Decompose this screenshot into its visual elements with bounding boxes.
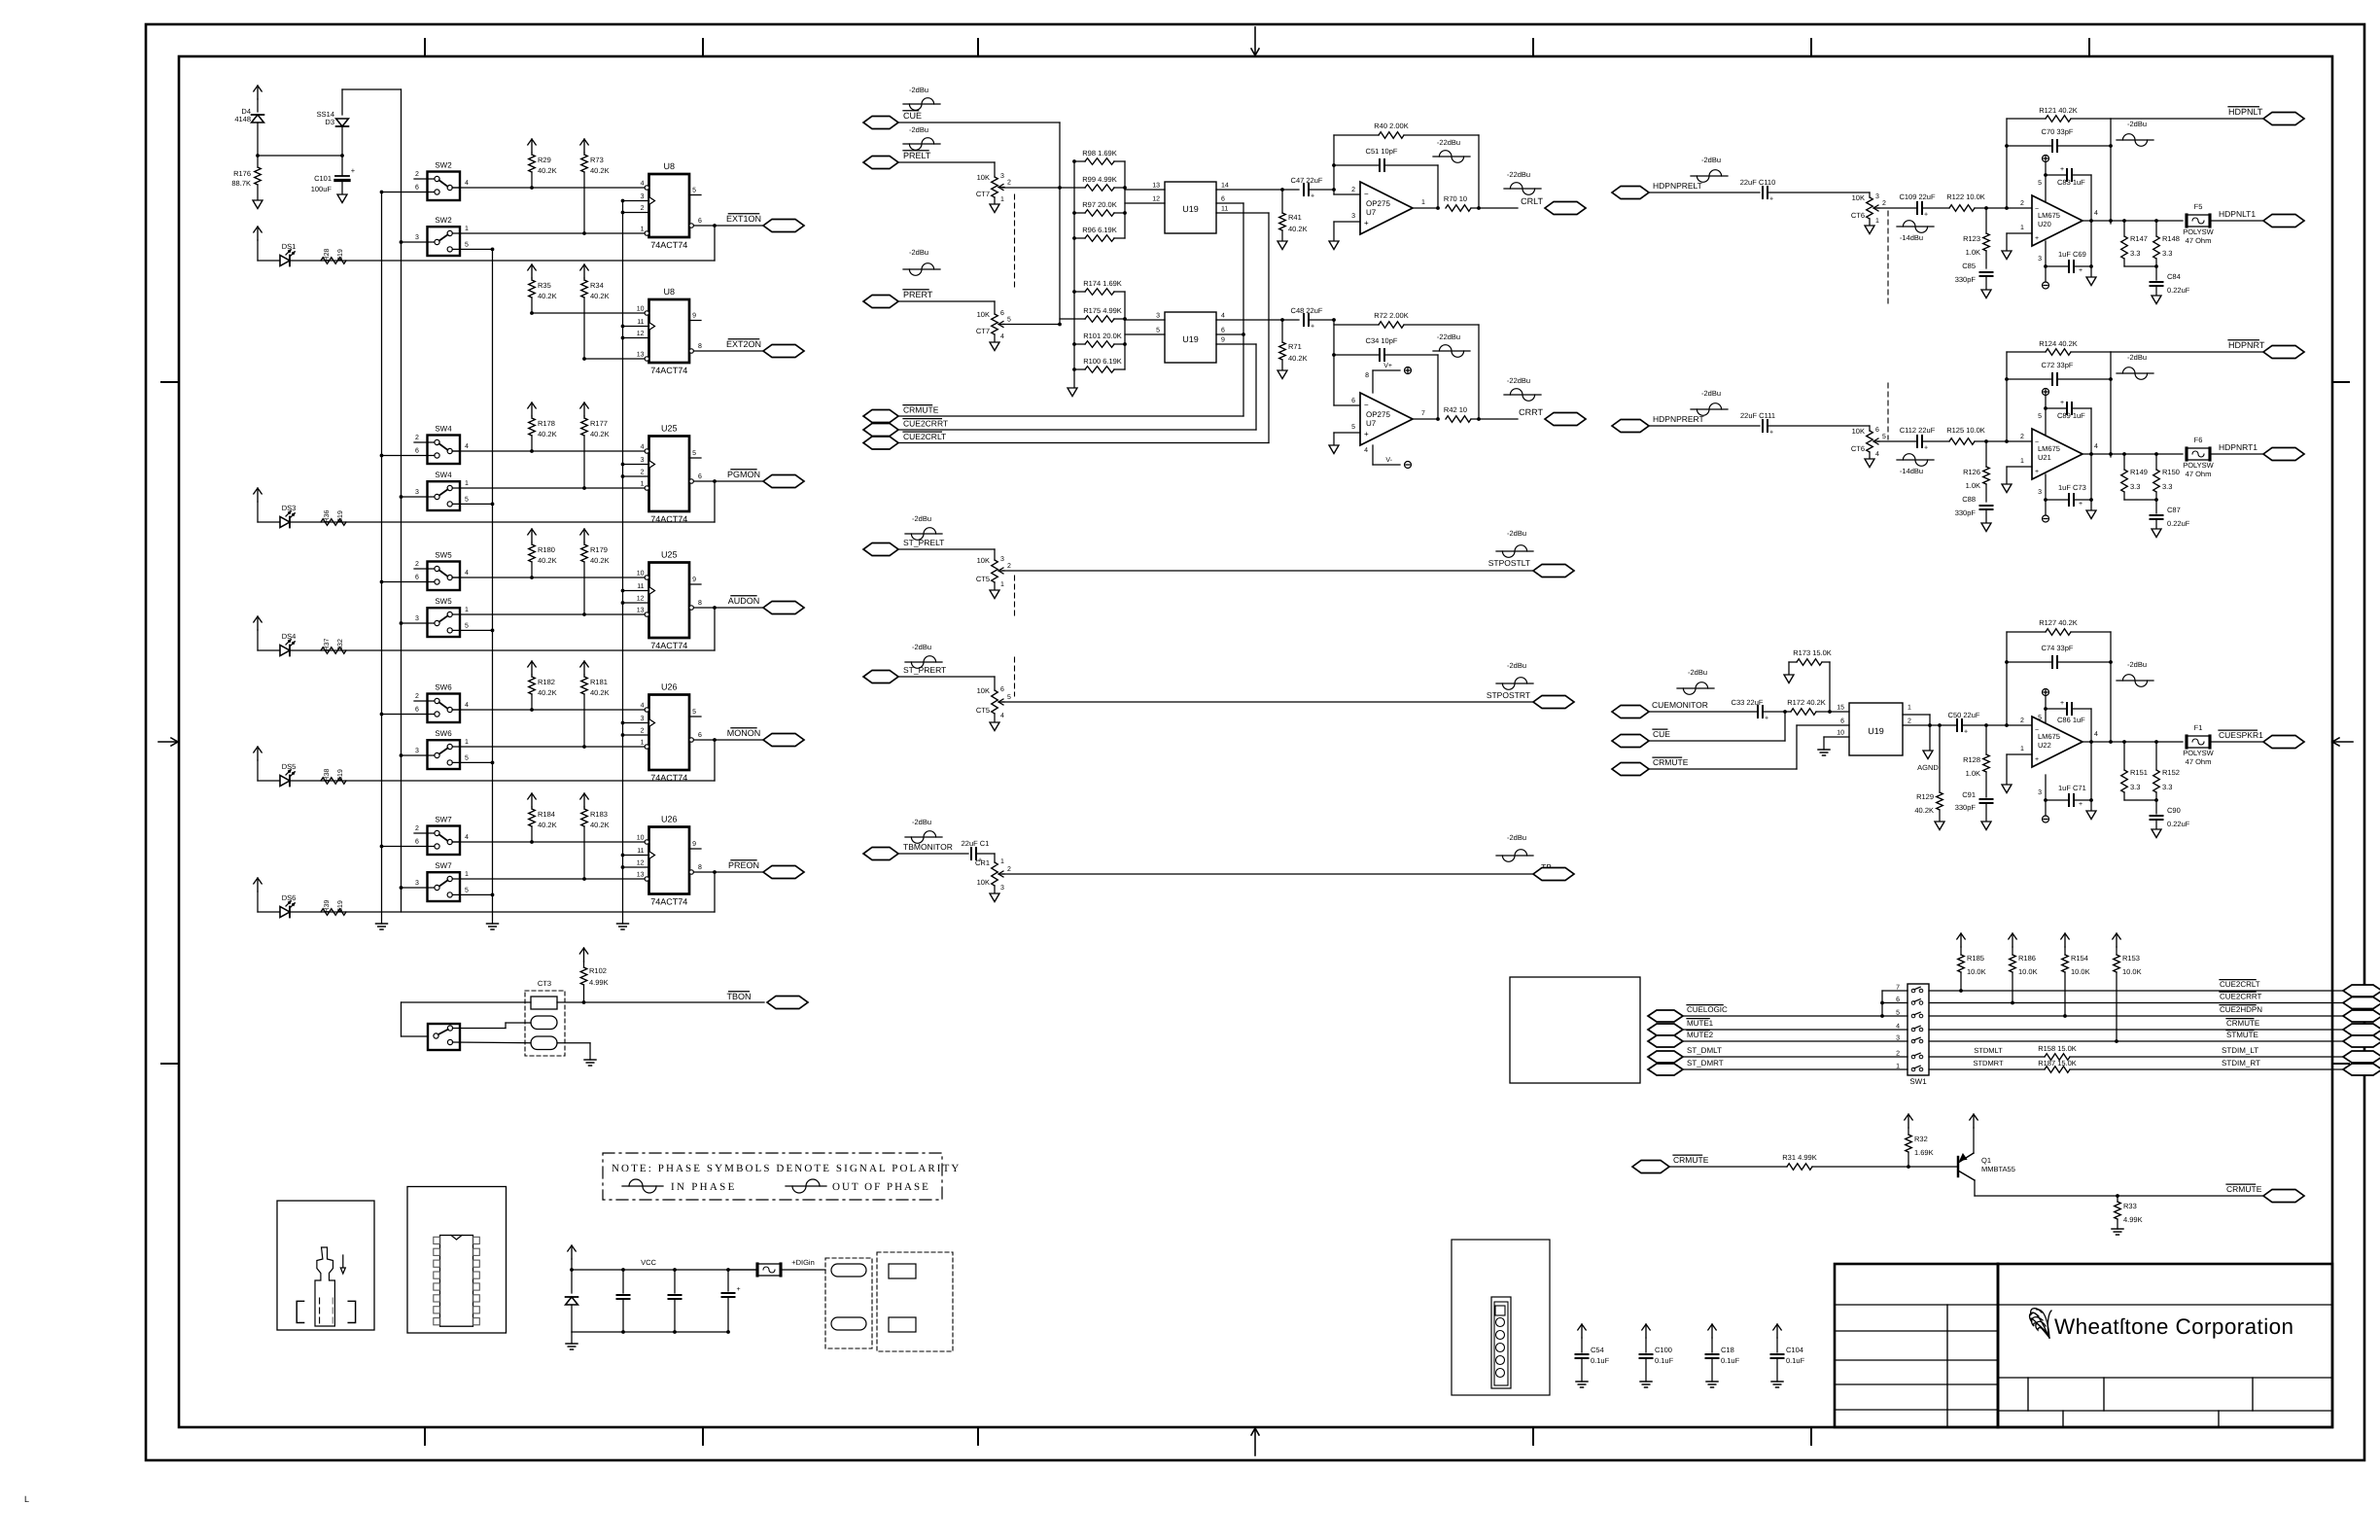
wire pin3 clock to bus B4: [623, 200, 649, 202]
svg-text:4: 4: [641, 444, 645, 451]
svg-text:ST_PRERT: ST_PRERT: [903, 665, 946, 675]
svg-text:−: −: [1364, 190, 1369, 198]
svg-text:CT5: CT5: [976, 575, 990, 583]
flag CUE: [863, 117, 898, 129]
ground R71: [1277, 370, 1287, 379]
svg-text:3.3: 3.3: [2130, 783, 2140, 791]
svg-text:1: 1: [465, 226, 469, 232]
resistor R129 40.2K: [1939, 725, 1941, 791]
svg-text:+: +: [2035, 469, 2039, 475]
svg-text:DS4: DS4: [282, 632, 297, 641]
svg-text:11: 11: [637, 583, 644, 590]
svg-text:R97 20.0K: R97 20.0K: [1082, 200, 1116, 209]
svg-text:R72 2.00K: R72 2.00K: [1374, 311, 1408, 320]
gang dashed line CT7 lower: [1014, 287, 1016, 301]
output pin to AUDON: [689, 606, 693, 610]
svg-text:TBMONITOR: TBMONITOR: [903, 842, 953, 852]
power arrow LED DS5: [257, 747, 259, 760]
resistor R37 332: [321, 647, 346, 654]
svg-text:R32: R32: [1914, 1135, 1928, 1143]
svg-text:9: 9: [692, 577, 696, 583]
svg-text:2: 2: [415, 825, 419, 832]
svg-text:SW4: SW4: [435, 425, 452, 434]
svg-text:4: 4: [1875, 451, 1879, 458]
resistor R28 619: [321, 258, 346, 264]
potentiometer CT7 lower 10K: [992, 314, 998, 334]
flag HDPNPRERT: [1612, 420, 1649, 433]
switch SW2 section a: [428, 172, 461, 201]
svg-text:CRRT: CRRT: [1519, 407, 1543, 417]
svg-text:CT6: CT6: [1851, 444, 1865, 453]
svg-text:C87: C87: [2167, 506, 2181, 514]
flag CUE2CRRT out: [2343, 997, 2380, 1009]
svg-text:10: 10: [637, 571, 645, 577]
flag CUE spk: [1612, 735, 1649, 748]
potentiometer CT5 upper 10K: [992, 560, 998, 582]
resistor R180 40.2K pullup: [531, 529, 533, 542]
svg-text:C74 33pF: C74 33pF: [2042, 644, 2074, 652]
svg-text:R158 15.0K: R158 15.0K: [2038, 1044, 2077, 1053]
svg-text:R73: R73: [590, 156, 604, 164]
op2 ground pin5: [1334, 432, 1360, 434]
svg-text:0.1uF: 0.1uF: [1655, 1356, 1674, 1365]
flag HDPNRT1: [2263, 448, 2304, 461]
svg-text:6: 6: [698, 218, 702, 225]
feedback C34 10pF: [1334, 354, 1380, 356]
IC U19a switch: [1165, 182, 1216, 233]
svg-text:CUE2CRRT: CUE2CRRT: [903, 419, 948, 429]
svg-text:C109 22uF: C109 22uF: [1899, 192, 1936, 201]
power arrow LED DS4: [257, 616, 259, 630]
svg-text:R71: R71: [1288, 342, 1302, 351]
svg-text:4: 4: [1000, 333, 1004, 340]
flag HDPNLT: [2263, 113, 2304, 125]
wire pin6 to bus L1: [382, 846, 435, 848]
resistor R128 1.0K: [1985, 725, 1987, 754]
pullup R154 10.0K: [2064, 933, 2066, 947]
resistor R96 6.19K: [1085, 235, 1114, 242]
capacitor C86 1uF: [2046, 708, 2067, 710]
svg-text:6: 6: [415, 575, 419, 581]
svg-text:U19: U19: [1182, 334, 1199, 344]
svg-text:10: 10: [637, 306, 645, 313]
svg-text:10.0K: 10.0K: [2122, 967, 2142, 976]
svg-text:5: 5: [465, 888, 469, 894]
flag CUELOGIC: [1648, 1010, 1683, 1022]
svg-text:C18: C18: [1721, 1346, 1734, 1354]
wire pin3 clock to bus B4: [623, 590, 649, 592]
junction PREON feedback: [713, 870, 717, 874]
svg-text:R99 4.99K: R99 4.99K: [1082, 175, 1116, 184]
svg-text:CUESPKR1: CUESPKR1: [2219, 730, 2263, 740]
svg-text:15: 15: [1837, 705, 1844, 712]
svg-text:1: 1: [465, 739, 469, 746]
ground pot CR1: [990, 893, 999, 902]
svg-text:V-: V-: [1385, 457, 1392, 464]
svg-text:U26: U26: [661, 682, 678, 692]
wire PRERT to pot: [898, 300, 995, 302]
wire D4 to node: [257, 122, 259, 156]
svg-text:R42 10: R42 10: [1444, 405, 1467, 414]
svg-text:R151: R151: [2130, 768, 2148, 777]
svg-text:Wheatſtone Corporation: Wheatſtone Corporation: [2054, 1314, 2293, 1339]
resistor R97 20.0K: [1085, 210, 1114, 217]
svg-text:C51 10pF: C51 10pF: [1366, 147, 1398, 156]
resistor R99 4.99K: [1085, 185, 1114, 192]
svg-text:CUE2CRLT: CUE2CRLT: [903, 432, 946, 441]
IC U19b switch: [1165, 312, 1216, 363]
flag HDPNLT1: [2263, 215, 2304, 227]
svg-text:Q1: Q1: [1981, 1156, 1991, 1165]
wire pin6 to bus L1: [382, 192, 435, 193]
svg-text:PRELT: PRELT: [903, 151, 931, 160]
svg-text:CUE: CUE: [1653, 729, 1670, 739]
svg-text:2: 2: [2020, 434, 2024, 440]
wire pin1 row: [584, 358, 645, 360]
svg-text:C90: C90: [2167, 806, 2181, 815]
flag STPOSTRT: [1533, 696, 1574, 709]
svg-text:12: 12: [637, 331, 645, 337]
svg-text:619: 619: [337, 769, 344, 781]
wire pin2 to bus B4: [623, 602, 649, 604]
svg-text:MUTE1: MUTE1: [1687, 1019, 1714, 1028]
svg-text:6: 6: [1221, 328, 1225, 334]
svg-text:13: 13: [637, 608, 645, 614]
svg-text:-2dBu: -2dBu: [909, 86, 928, 94]
svg-text:1: 1: [1000, 196, 1004, 203]
ground pot CT7 upper: [990, 204, 999, 213]
resistor R73 40.2K pullup: [583, 139, 585, 153]
LED DS5: [280, 776, 290, 787]
svg-text:10K: 10K: [977, 878, 990, 887]
diode D3 SS14: [341, 89, 343, 115]
resistor R29 40.2K pullup: [531, 139, 533, 153]
svg-text:-2dBu: -2dBu: [1688, 668, 1707, 677]
jumper pad CT3 a: [531, 997, 557, 1009]
ground pot CT5 lower: [990, 722, 999, 731]
bracket right: [348, 1301, 355, 1322]
resistor R35 40.2K pullup: [531, 264, 533, 278]
svg-text:R123: R123: [1963, 234, 1980, 243]
svg-text:1.0K: 1.0K: [1966, 248, 1980, 257]
svg-text:3: 3: [415, 489, 419, 496]
svg-text:C91: C91: [1962, 790, 1976, 799]
flag PRERT: [863, 296, 898, 308]
svg-text:3.3: 3.3: [2162, 249, 2172, 258]
wire VCC rail: [572, 1269, 757, 1271]
svg-text:R154: R154: [2071, 954, 2088, 962]
svg-text:5: 5: [1882, 434, 1886, 440]
ground pot CT6: [1865, 459, 1874, 468]
svg-text:2: 2: [641, 205, 645, 212]
fuse F6 POLYSW 47 Ohm: [2187, 448, 2210, 460]
capacitor C54 0.1uF: [1581, 1324, 1583, 1338]
node junction D3/C101: [340, 154, 344, 157]
svg-text:R101 20.0K: R101 20.0K: [1083, 332, 1122, 340]
wire STDIM_LT out / resistor R158 15.0K: [1929, 1056, 2045, 1058]
svg-text:R125 10.0K: R125 10.0K: [1946, 426, 1985, 435]
svg-text:R150: R150: [2162, 468, 2180, 476]
svg-text:C72 33pF: C72 33pF: [2042, 361, 2074, 369]
wire CUE2CRLT to U19a pin11: [1268, 213, 1270, 443]
svg-text:DS1: DS1: [282, 242, 297, 251]
connector SW1 DIP switch: [1907, 984, 1929, 1075]
dashed box CT3: [525, 991, 565, 1056]
svg-text:7: 7: [1421, 410, 1425, 417]
potentiometer CT6 10K: [1867, 197, 1873, 219]
svg-text:4: 4: [465, 702, 469, 709]
svg-text:F1: F1: [2194, 723, 2203, 732]
fuse F1 POLYSW: [2187, 736, 2210, 748]
svg-text:R178: R178: [538, 419, 555, 428]
wire HDPNRT: [2111, 351, 2265, 353]
svg-text:R100 6.19K: R100 6.19K: [1083, 357, 1122, 366]
svg-text:-2dBu: -2dBu: [912, 514, 931, 523]
svg-text:U22: U22: [2038, 741, 2051, 750]
resistor R149 3.3: [2123, 454, 2125, 470]
junction R177 on pin row: [582, 486, 586, 490]
resistor R36 619: [321, 519, 346, 526]
svg-text:-14dBu: -14dBu: [1900, 233, 1923, 242]
wire bus B3 switch pin5 bus: [492, 249, 494, 924]
svg-text:HDPNLT: HDPNLT: [2228, 107, 2263, 117]
gang dashed line CT6: [1887, 211, 1889, 305]
resistor R123 1.0K: [1985, 208, 1987, 233]
pullup R186 10.0K: [2012, 933, 2013, 947]
svg-text:1: 1: [1421, 199, 1425, 206]
svg-text:OP275: OP275: [1366, 199, 1390, 208]
svg-text:+: +: [1924, 445, 1928, 452]
wire node to D3 node: [258, 155, 342, 157]
svg-text:R172 40.2K: R172 40.2K: [1787, 698, 1826, 707]
svg-text:0.22uF: 0.22uF: [2167, 519, 2190, 528]
svg-text:10K: 10K: [977, 686, 990, 695]
output node wire: [2082, 453, 2111, 455]
pin5 V+ supply: [2045, 175, 2047, 202]
pin1 ground spk: [2007, 753, 2032, 755]
svg-text:4.99K: 4.99K: [2123, 1215, 2143, 1224]
svg-text:5: 5: [465, 623, 469, 630]
capacitor C74 33pF: [2007, 661, 2052, 663]
border zone ticks left: [161, 381, 179, 383]
flag CRMUTE out: [2263, 1190, 2304, 1203]
svg-text:+: +: [2060, 400, 2064, 406]
IC U25 74ACT74: [649, 437, 690, 512]
svg-text:9: 9: [692, 841, 696, 848]
svg-text:4: 4: [465, 570, 469, 577]
wire SW1 pin6 loop: [1882, 1002, 1907, 1004]
svg-text:U19: U19: [1868, 726, 1884, 736]
flag TBON: [767, 997, 808, 1009]
ground op out side: [2090, 266, 2092, 277]
svg-text:SW7: SW7: [435, 816, 452, 824]
svg-text:R185: R185: [1967, 954, 1984, 962]
resistor R102 4.99K: [583, 948, 585, 962]
svg-text:OP275: OP275: [1366, 410, 1390, 419]
svg-text:5: 5: [692, 188, 696, 194]
wire pin2 to bus B4: [623, 337, 649, 339]
svg-text:CT7: CT7: [976, 190, 990, 198]
flag CUE2CRLT mixer: [863, 437, 898, 449]
svg-text:-22dBu: -22dBu: [1507, 170, 1530, 179]
title block right rows: [1998, 1304, 2332, 1306]
output pin to EXT2ON: [689, 349, 693, 353]
svg-text:R121 40.2K: R121 40.2K: [2039, 106, 2078, 115]
svg-text:R39: R39: [324, 899, 331, 912]
switch SW4 section b: [428, 481, 461, 510]
wire SW7 pin1 to R102 top: [583, 879, 585, 948]
svg-text:12: 12: [637, 596, 645, 603]
svg-text:4148: 4148: [234, 115, 251, 123]
capacitor C71 1uF: [2046, 799, 2069, 801]
wire bus L1: [381, 192, 383, 925]
svg-text:C88: C88: [1962, 495, 1976, 504]
wire ST_PRELT to pot: [898, 548, 995, 550]
svg-text:40.2K: 40.2K: [590, 821, 610, 829]
output pin to PREON: [689, 870, 693, 874]
svg-text:+: +: [351, 166, 356, 175]
svg-text:47 Ohm: 47 Ohm: [2186, 236, 2212, 245]
svg-text:74ACT74: 74ACT74: [650, 366, 687, 375]
ground pot CT5 upper: [990, 590, 999, 599]
svg-text:1: 1: [1000, 581, 1004, 588]
resistor R178 40.2K pullup: [531, 402, 533, 416]
bottom rail: [572, 1331, 728, 1333]
switch SW5 section a: [428, 562, 461, 591]
flag CUEMONITOR: [1612, 706, 1649, 718]
svg-text:C89 1uF: C89 1uF: [2057, 411, 2085, 420]
wire TB: [1002, 873, 1533, 875]
svg-text:4: 4: [1364, 447, 1368, 454]
svg-text:ST_DMLT: ST_DMLT: [1687, 1046, 1722, 1055]
wire pin5 to bus B3: [452, 248, 492, 250]
capacitor C100 0.1uF: [1645, 1324, 1647, 1338]
svg-text:CRMUTE: CRMUTE: [2226, 1019, 2259, 1028]
svg-text:88.7K: 88.7K: [231, 179, 251, 188]
junction R180 on pin row: [530, 576, 534, 579]
stub pin2: [414, 568, 435, 570]
wire pin1 row: [460, 232, 645, 234]
svg-text:+: +: [2079, 267, 2082, 274]
wire feedback to LED row: [714, 481, 716, 522]
resistor R32 1.69K: [1907, 1114, 1909, 1128]
wire pin5 to bus B3: [452, 893, 492, 895]
wire STMUTE out: [1929, 1040, 2344, 1042]
svg-text:VCC: VCC: [641, 1258, 656, 1267]
svg-text:U8: U8: [663, 161, 675, 171]
svg-text:13: 13: [1152, 183, 1160, 190]
svg-text:3: 3: [415, 615, 419, 622]
svg-text:U20: U20: [2038, 220, 2051, 228]
svg-text:R124 40.2K: R124 40.2K: [2039, 339, 2078, 348]
svg-text:4: 4: [465, 443, 469, 450]
svg-text:R174 1.69K: R174 1.69K: [1083, 279, 1122, 288]
wire pin3 to bus L2: [402, 754, 435, 756]
junction MONON feedback: [713, 738, 717, 742]
junction op1 input: [1332, 188, 1336, 192]
svg-text:40.2K: 40.2K: [590, 556, 610, 565]
wire pin4 row: [452, 841, 645, 843]
svg-text:−: −: [2035, 206, 2039, 213]
potentiometer CR1 10K: [992, 862, 998, 886]
svg-text:40.2K: 40.2K: [1288, 354, 1308, 363]
svg-text:1uF C73: 1uF C73: [2058, 483, 2086, 492]
fuse F5 POLYSW 47 Ohm: [2187, 215, 2210, 227]
capacitor C91 330pF: [1980, 798, 1993, 800]
svg-text:22uF C1: 22uF C1: [962, 839, 990, 848]
svg-text:22uF C111: 22uF C111: [1740, 411, 1775, 420]
capacitor C50 22uF: [1956, 719, 1958, 731]
junction PGMON feedback: [713, 479, 717, 483]
wire pin1 row: [460, 878, 645, 880]
pin5 V+ supply spk: [2045, 709, 2047, 723]
wire bus B4 data bus: [622, 201, 624, 925]
svg-text:+: +: [1924, 212, 1928, 219]
wire CUESPKR1: [2210, 741, 2265, 743]
svg-text:330pF: 330pF: [1955, 508, 1977, 517]
svg-text:619: 619: [337, 900, 344, 912]
feedback R40 2.00K: [1333, 135, 1335, 190]
svg-text:4.99K: 4.99K: [589, 978, 609, 987]
svg-text:40.2K: 40.2K: [538, 688, 557, 697]
svg-text:40.2K: 40.2K: [538, 430, 557, 438]
svg-text:CRMUTE: CRMUTE: [2226, 1184, 2262, 1194]
wire STDIM_RT out / resistor R187 15.0K: [1929, 1068, 2045, 1070]
svg-text:4: 4: [1221, 313, 1225, 320]
wire pin4 row: [532, 312, 645, 314]
wire resistor rights to U19b: [1124, 292, 1126, 369]
svg-text:1: 1: [1875, 218, 1879, 225]
junction R183 on pin row: [582, 877, 586, 881]
pin5 V+ supply: [2045, 408, 2047, 436]
junction op2 input: [1332, 318, 1336, 322]
junction R178 on pin row: [530, 449, 534, 453]
svg-text:LM675: LM675: [2038, 211, 2060, 220]
note box phase symbols: [603, 1153, 942, 1200]
flag TB: [1533, 868, 1574, 881]
resistor R100 6.19K: [1085, 367, 1114, 373]
svg-text:+: +: [736, 1286, 740, 1293]
capacitor C33 22uF: [1649, 711, 1758, 713]
resistor R172 40.2K: [1763, 711, 1791, 713]
svg-text:3.3: 3.3: [2162, 482, 2172, 491]
title block frame: [1835, 1264, 2332, 1427]
svg-text:CUE: CUE: [903, 111, 922, 121]
svg-text:SW5: SW5: [435, 597, 452, 606]
wire U19a out: [1216, 189, 1282, 191]
svg-text:3: 3: [1000, 173, 1004, 180]
svg-text:POLYSW: POLYSW: [2183, 749, 2214, 757]
svg-text:-2dBu: -2dBu: [912, 818, 931, 826]
border zone ticks bottom: [424, 1427, 426, 1445]
IC U8 74ACT74: [649, 299, 690, 363]
svg-text:U25: U25: [661, 424, 678, 434]
svg-text:2: 2: [641, 470, 645, 476]
svg-text:10.0K: 10.0K: [2071, 967, 2090, 976]
switch SW2 section b: [428, 227, 461, 256]
svg-text:HDPNPRERT: HDPNPRERT: [1653, 414, 1704, 424]
capacitor C84 0.22uF: [2155, 266, 2157, 280]
output node wire: [2082, 220, 2111, 222]
wire STPOSTRT: [1002, 701, 1533, 703]
flag PRELT: [863, 157, 898, 169]
resistor R175 4.99K: [1085, 316, 1114, 323]
wire pin2 to bus B4: [623, 734, 649, 736]
wire HDPNLT: [2111, 118, 2265, 120]
svg-text:12: 12: [637, 860, 645, 867]
svg-text:6: 6: [415, 185, 419, 192]
svg-text:R126: R126: [1963, 468, 1980, 476]
